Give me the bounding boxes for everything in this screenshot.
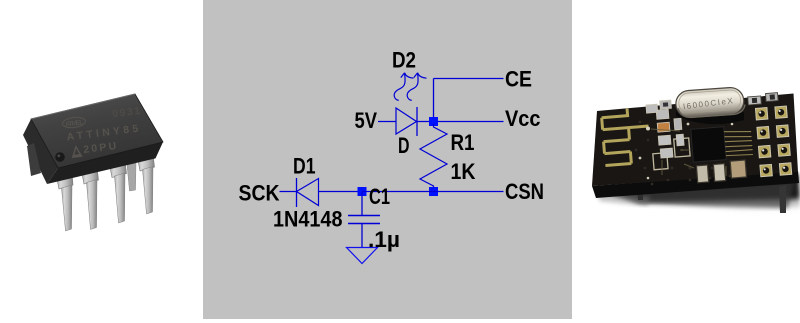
front pin 3 bbox=[110, 161, 127, 224]
wire 5V to D2 anode bbox=[378, 121, 396, 123]
crystal bbox=[675, 87, 746, 119]
LED emission arrow 2 of D2 bbox=[407, 74, 418, 101]
wire SCK to D1 cathode bbox=[280, 191, 297, 193]
svg-text:Vcc: Vcc bbox=[505, 106, 541, 131]
capacitor C1 bottom plate bbox=[348, 223, 380, 225]
wire D2 cathode to junction bbox=[417, 121, 434, 123]
chip side bump bbox=[27, 143, 41, 176]
svg-text:D: D bbox=[398, 133, 410, 158]
chip front face bbox=[47, 142, 163, 184]
front pin 1 bbox=[57, 173, 74, 232]
top edge SMDs left of crystal bbox=[646, 100, 672, 113]
wire R1 junction to CSN bbox=[434, 191, 504, 193]
module legs bbox=[637, 188, 643, 200]
front pin 4 bbox=[138, 154, 155, 214]
svg-text:C1: C1 bbox=[369, 184, 390, 209]
bottom row capacitors bbox=[696, 160, 746, 183]
antenna via dot bbox=[646, 127, 650, 131]
wire junction up to CE corner bbox=[433, 79, 435, 122]
faint gold traces bbox=[651, 129, 742, 176]
board texture dots bbox=[635, 121, 747, 186]
wire C1 bottom plate to ground bbox=[361, 224, 363, 248]
svg-text:D2: D2 bbox=[392, 48, 416, 73]
LED arrowhead 1 bbox=[401, 73, 414, 78]
diode D1 symbol (pointing left) bbox=[297, 178, 319, 207]
pin1 dot bbox=[55, 152, 65, 162]
ground symbol bbox=[347, 248, 378, 264]
board side face bbox=[592, 171, 799, 198]
wire D1 anode to C1 junction bbox=[319, 191, 363, 193]
svg-text:CE: CE bbox=[505, 67, 532, 92]
photo: nRF24L01 module bbox=[592, 87, 800, 213]
front pin 2 bbox=[82, 167, 99, 230]
schematic gray panel bbox=[203, 0, 572, 319]
resistor R1 zigzag bbox=[420, 124, 447, 189]
chip markings bbox=[61, 105, 144, 159]
diode D2 symbol bbox=[396, 107, 417, 136]
capacitor C1 top plate bbox=[348, 215, 380, 217]
board top face bbox=[592, 94, 798, 187]
wire junction down to C1 top plate bbox=[361, 192, 363, 216]
antenna meander bbox=[601, 107, 651, 165]
back pins (behind body) bbox=[127, 163, 136, 191]
junction at C1 node bbox=[358, 187, 367, 196]
svg-text:D1: D1 bbox=[293, 154, 316, 179]
via dots bbox=[639, 114, 734, 180]
svg-text:5V: 5V bbox=[355, 108, 378, 133]
SMD column mid-left bbox=[656, 108, 685, 158]
svg-text:1N4148: 1N4148 bbox=[273, 207, 343, 232]
LED emission arrow 1 of D2 bbox=[394, 74, 405, 101]
svg-text:CSN: CSN bbox=[505, 179, 544, 204]
chip left end face bbox=[23, 119, 58, 184]
wire CE horizontal bbox=[434, 78, 504, 80]
wire C1 junction to R1 junction bbox=[362, 191, 434, 193]
svg-text:R1: R1 bbox=[451, 130, 475, 155]
svg-text:SCK: SCK bbox=[239, 181, 280, 206]
photo: ATtiny85 DIP-8 chip bbox=[23, 94, 163, 231]
LED arrowhead 2 bbox=[414, 73, 427, 78]
junction at D2/R1/Vcc node bbox=[429, 117, 438, 126]
gold corner trace bottom-left bbox=[652, 138, 691, 170]
header pads 2x4 bbox=[755, 106, 791, 177]
underside shadow bbox=[598, 174, 800, 212]
junction at R1 bottom / CSN wire bbox=[429, 187, 438, 196]
chip top face bbox=[31, 94, 163, 168]
svg-text:1K: 1K bbox=[451, 159, 476, 184]
wire junction to Vcc bbox=[434, 121, 504, 123]
IC chip bbox=[691, 125, 753, 163]
top edge SMDs right of crystal bbox=[748, 93, 779, 105]
crystal shadow band bbox=[676, 108, 744, 124]
svg-text:.1µ: .1µ bbox=[368, 227, 400, 252]
